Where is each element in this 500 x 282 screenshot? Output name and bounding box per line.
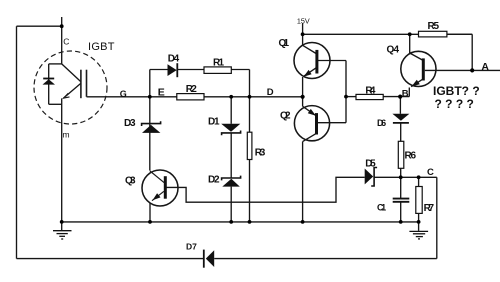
svg-text:B: B (402, 88, 409, 99)
svg-text:C: C (427, 167, 434, 178)
svg-text:D: D (267, 87, 274, 98)
svg-text:R6: R6 (405, 150, 417, 161)
svg-text:? ? ? ?: ? ? ? ? (435, 97, 474, 111)
svg-text:Q3: Q3 (125, 176, 136, 187)
svg-text:R4: R4 (365, 86, 375, 97)
svg-text:D2: D2 (208, 174, 220, 185)
svg-text:D5: D5 (365, 158, 376, 169)
svg-text:IGBT? ?: IGBT? ? (433, 84, 480, 98)
svg-text:D3: D3 (124, 118, 136, 129)
svg-text:R1: R1 (213, 57, 224, 68)
svg-text:15V: 15V (297, 16, 310, 25)
svg-text:R2: R2 (186, 84, 197, 95)
svg-text:D1: D1 (208, 116, 220, 127)
svg-text:Q1: Q1 (279, 38, 290, 49)
svg-text:D6: D6 (377, 118, 386, 128)
svg-text:A: A (481, 61, 489, 73)
svg-text:G: G (120, 89, 127, 99)
svg-text:R7: R7 (424, 203, 435, 214)
svg-text:Q2: Q2 (280, 111, 291, 122)
svg-text:Q4: Q4 (387, 45, 400, 56)
svg-text:C1: C1 (377, 203, 386, 213)
svg-text:D7: D7 (186, 241, 197, 251)
svg-text:D4: D4 (168, 54, 180, 65)
svg-text:E: E (158, 86, 165, 98)
svg-text:R5: R5 (428, 21, 440, 32)
svg-text:IGBT: IGBT (88, 41, 115, 53)
svg-text:R3: R3 (255, 147, 266, 158)
svg-text:m: m (63, 130, 70, 140)
svg-text:C: C (63, 37, 69, 47)
